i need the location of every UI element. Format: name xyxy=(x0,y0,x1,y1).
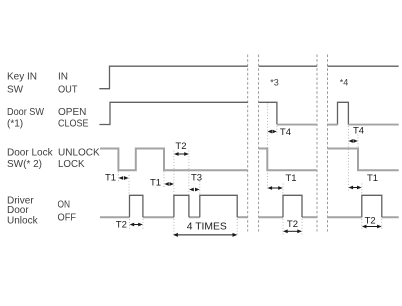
wire doorsw low s4b xyxy=(348,124,398,126)
signal Driver Door Unlock OFF line gray xyxy=(100,216,399,218)
ext s4 pulse T2 xyxy=(361,219,363,231)
signal Door Lock SW waveform xyxy=(100,149,399,171)
arrow T3 squeezed xyxy=(189,188,199,192)
annotation labels xyxy=(105,126,378,231)
ext 4times left xyxy=(173,219,175,236)
svg-text:*4: *4 xyxy=(340,78,349,88)
svg-text:T2: T2 xyxy=(287,219,298,230)
svg-text:UNLOCK: UNLOCK xyxy=(58,147,100,158)
ext door lock fall2 xyxy=(163,172,165,188)
svg-text:T1: T1 xyxy=(105,173,116,184)
wire off c xyxy=(189,216,200,218)
svg-text:Door SW: Door SW xyxy=(7,107,45,118)
break dashed line pair 1 xyxy=(248,55,259,232)
wire doorsw low s3 xyxy=(277,124,317,126)
wire doorlock s4 xyxy=(328,149,399,171)
svg-text:Door Lock: Door Lock xyxy=(7,147,54,158)
wire keyin high3 xyxy=(328,65,399,67)
wire keyin stub+rise+high1 xyxy=(99,66,248,89)
wire doorsw stub+rise+high1 xyxy=(99,102,247,124)
svg-text:4 TIMES: 4 TIMES xyxy=(187,221,227,232)
signal Driver Door Unlock pulses xyxy=(130,195,382,217)
arrow 4 TIMES xyxy=(173,233,237,237)
svg-text:CLOSE: CLOSE xyxy=(58,118,89,129)
svg-text:T2: T2 xyxy=(365,216,376,227)
wire keyin high2 xyxy=(259,65,317,67)
svg-text:T1: T1 xyxy=(150,178,161,189)
arrow T2 pulse1 xyxy=(130,223,143,227)
wire doorlock left xyxy=(100,149,248,171)
wire pulse1 xyxy=(130,195,143,217)
wire pulse s3 xyxy=(283,195,302,217)
ext pulse2 rise tall xyxy=(173,151,175,195)
ext s3 pulse rise xyxy=(282,184,284,195)
arrow T1 s4 xyxy=(349,186,362,190)
svg-text:IN: IN xyxy=(58,72,68,83)
ext s3 pulse T2 xyxy=(282,219,284,235)
row label Door Lock SW(* 2) xyxy=(7,147,100,170)
arrow T2 s3 xyxy=(283,229,302,233)
arrow T2 doorlock row xyxy=(174,152,189,156)
svg-text:Key IN: Key IN xyxy=(7,72,37,83)
svg-text:OFF: OFF xyxy=(58,213,77,224)
arrow T4 s4 squeezed xyxy=(349,139,358,143)
wire off e xyxy=(259,216,283,218)
svg-text:T2: T2 xyxy=(116,219,127,230)
svg-text:LOCK: LOCK xyxy=(58,159,85,170)
ext s4 pulse rise xyxy=(361,184,363,195)
row label Driver Door Unlock xyxy=(7,196,76,227)
ext pulse1 T2 xyxy=(129,219,131,230)
wire doorsw high2+fall s3 xyxy=(259,102,277,124)
dotted extension lines xyxy=(118,104,381,237)
arrow T1 s3 xyxy=(268,186,283,190)
wire doorsw pulse s4 xyxy=(338,102,349,124)
wire pulse2 xyxy=(174,195,189,217)
row label Door SW (*1) xyxy=(7,107,89,130)
wire off b xyxy=(143,216,174,218)
svg-text:(*1): (*1) xyxy=(7,118,23,129)
signal Door SW low gray parts xyxy=(277,124,399,126)
break dashed line pair 2 xyxy=(317,55,328,232)
wire pulse3 xyxy=(200,195,237,217)
svg-text:OUT: OUT xyxy=(58,84,78,95)
ext s4 door sw fall tall xyxy=(347,126,349,191)
svg-text:*3: *3 xyxy=(270,78,279,88)
svg-text:T4: T4 xyxy=(353,126,364,137)
svg-text:SW(* 2): SW(* 2) xyxy=(7,159,42,170)
wire off g xyxy=(328,216,362,218)
svg-text:T2: T2 xyxy=(175,141,186,152)
signal Door SW waveform dark parts xyxy=(99,102,348,124)
arrow T4 s3 squeezed xyxy=(268,130,277,134)
ext s3 door sw fall xyxy=(276,126,278,135)
svg-text:SW: SW xyxy=(7,84,24,95)
svg-text:Unlock: Unlock xyxy=(7,215,39,226)
ext pulse1 rise upper xyxy=(128,175,130,194)
row label Key IN SW xyxy=(7,72,78,96)
wire off h xyxy=(382,216,399,218)
ext s3 door lock fall tall xyxy=(266,104,268,191)
wire doorsw low s4a xyxy=(328,124,338,126)
svg-text:T1: T1 xyxy=(367,173,378,184)
ext 4times right xyxy=(236,219,238,236)
svg-text:ON: ON xyxy=(58,200,71,211)
wire off d xyxy=(237,216,248,218)
ext door lock fall1 xyxy=(117,172,119,182)
signal Key IN SW waveform xyxy=(99,66,398,89)
wire pulse s4 xyxy=(362,195,382,217)
wire off a xyxy=(100,216,130,218)
svg-text:T4: T4 xyxy=(280,127,291,138)
svg-text:T1: T1 xyxy=(286,173,297,184)
arrow T1 second squeezed xyxy=(164,182,174,186)
arrow T2 s4 xyxy=(362,225,382,229)
svg-text:OPEN: OPEN xyxy=(58,107,86,118)
wire doorlock s3 xyxy=(259,149,317,171)
ext s4 door lock fall xyxy=(357,135,359,149)
ext pulse3 rise xyxy=(199,181,201,195)
arrow T1 first squeezed xyxy=(119,176,129,180)
svg-text:T3: T3 xyxy=(191,173,202,184)
ext pulse2 fall tall xyxy=(188,151,190,195)
wire off f xyxy=(302,216,317,218)
